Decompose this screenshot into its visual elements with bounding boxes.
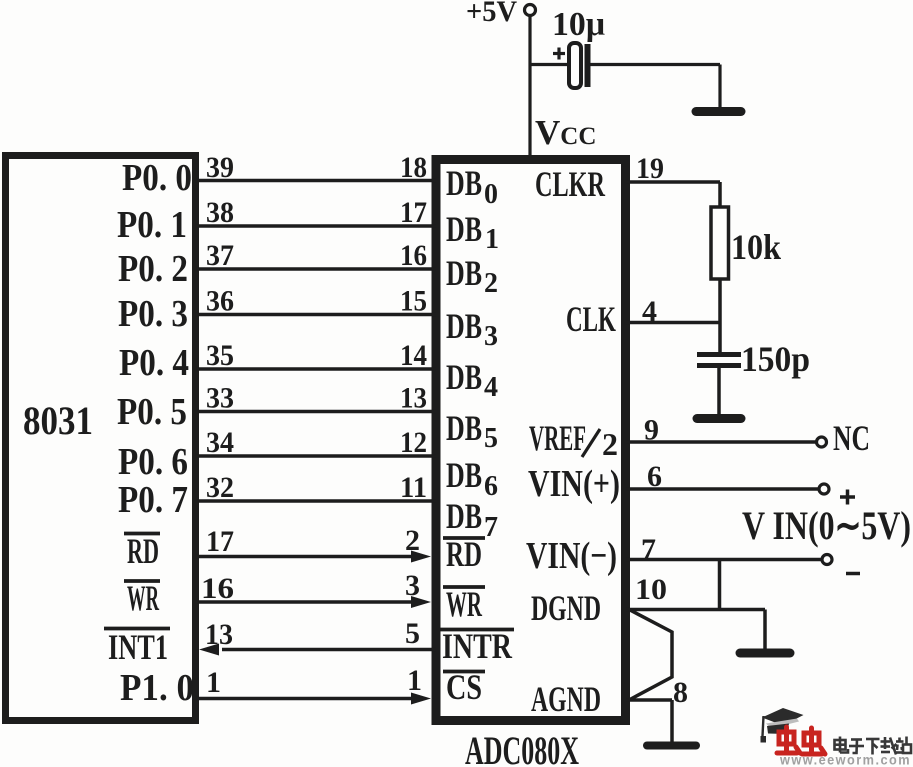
svg-text:INT1: INT1: [108, 627, 168, 667]
svg-text:NC: NC: [833, 418, 870, 458]
svg-text:39: 39: [206, 151, 234, 184]
svg-text:6: 6: [647, 460, 662, 493]
svg-text:19: 19: [636, 152, 664, 185]
svg-text:17: 17: [400, 196, 427, 229]
svg-text:WR: WR: [446, 584, 483, 624]
svg-text:2: 2: [484, 268, 498, 299]
svg-text:38: 38: [206, 196, 234, 229]
svg-text:P0. 6: P0. 6: [118, 441, 188, 483]
svg-text:7: 7: [641, 533, 656, 566]
svg-text:150p: 150p: [741, 339, 810, 379]
svg-text:13: 13: [205, 618, 233, 651]
svg-text:35: 35: [206, 339, 234, 372]
svg-text:14: 14: [400, 339, 427, 372]
svg-text:3: 3: [405, 569, 420, 602]
svg-text:DB: DB: [446, 163, 482, 203]
svg-text:CS: CS: [446, 667, 482, 707]
svg-text:10: 10: [635, 573, 667, 606]
svg-text:DGND: DGND: [531, 588, 601, 628]
svg-text:9: 9: [644, 414, 659, 447]
svg-text:4: 4: [642, 295, 657, 328]
svg-text:VIN(+): VIN(+): [528, 463, 620, 505]
svg-text:DB: DB: [446, 209, 482, 249]
svg-text:5: 5: [405, 617, 420, 650]
svg-text:DB: DB: [446, 357, 482, 397]
svg-text:6: 6: [484, 471, 498, 502]
svg-text:16: 16: [201, 572, 234, 605]
svg-text:VREF: VREF: [529, 418, 586, 458]
svg-text:10k: 10k: [731, 227, 781, 267]
svg-text:7: 7: [484, 512, 498, 543]
svg-text:RD: RD: [127, 531, 159, 571]
svg-text:2: 2: [405, 524, 420, 557]
svg-text:11: 11: [400, 471, 427, 504]
svg-text:+5V: +5V: [466, 0, 517, 28]
svg-text:ADC080X: ADC080X: [465, 728, 579, 767]
svg-text:DB: DB: [446, 253, 482, 293]
svg-text:CLK: CLK: [566, 299, 616, 339]
svg-text:12: 12: [400, 426, 427, 459]
svg-text:P0. 1: P0. 1: [117, 204, 187, 246]
svg-text:13: 13: [400, 382, 427, 415]
svg-text:DB: DB: [446, 408, 482, 448]
svg-text:33: 33: [206, 382, 234, 415]
svg-text:DB: DB: [446, 496, 482, 536]
svg-text:CLKR: CLKR: [535, 164, 606, 204]
svg-text:DB: DB: [446, 306, 482, 346]
svg-text:P0. 4: P0. 4: [119, 342, 189, 384]
svg-text:37: 37: [206, 239, 234, 272]
svg-text:V IN(0∼5V): V IN(0∼5V): [742, 503, 911, 548]
svg-text:RD: RD: [446, 534, 482, 574]
svg-text:1: 1: [407, 664, 422, 697]
svg-text:15: 15: [400, 285, 427, 318]
svg-text:P0. 3: P0. 3: [118, 293, 188, 335]
svg-text:P0. 7: P0. 7: [118, 479, 188, 521]
svg-text:P0. 5: P0. 5: [117, 391, 187, 433]
svg-text:17: 17: [206, 525, 234, 558]
svg-text:0: 0: [484, 179, 498, 210]
svg-text:8031: 8031: [23, 398, 93, 443]
svg-text:AGND: AGND: [531, 679, 601, 719]
svg-text:VCC: VCC: [535, 113, 596, 152]
svg-text:36: 36: [206, 285, 234, 318]
svg-text:32: 32: [206, 471, 234, 504]
svg-text:1: 1: [485, 224, 499, 255]
svg-text:2: 2: [602, 426, 618, 462]
svg-text:WR: WR: [127, 578, 160, 618]
svg-text:18: 18: [400, 151, 427, 184]
svg-text:P0. 0: P0. 0: [122, 157, 192, 199]
svg-text:INTR: INTR: [442, 626, 513, 666]
svg-text:www.eeworm.com: www.eeworm.com: [779, 752, 911, 767]
svg-text:P1. 0: P1. 0: [120, 667, 194, 709]
svg-text:P0. 2: P0. 2: [118, 248, 188, 290]
svg-text:1: 1: [206, 666, 221, 699]
svg-text:8: 8: [673, 676, 688, 709]
svg-text:3: 3: [484, 321, 498, 352]
svg-text:DB: DB: [446, 455, 482, 495]
svg-text:5: 5: [484, 423, 498, 454]
svg-text:VIN(−): VIN(−): [526, 535, 617, 577]
svg-text:10μ: 10μ: [552, 6, 605, 43]
svg-text:34: 34: [206, 426, 234, 459]
svg-text:16: 16: [400, 239, 427, 272]
svg-text:4: 4: [484, 372, 498, 403]
